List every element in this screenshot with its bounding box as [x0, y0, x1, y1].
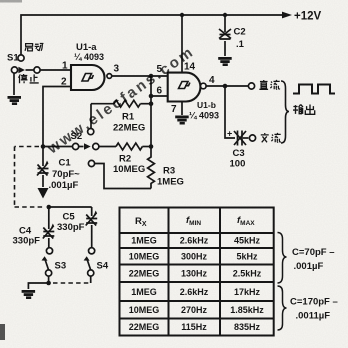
label tingzhi (stop)	[19, 74, 39, 83]
wire U1-b output	[206, 85, 248, 87]
switch S2	[44, 129, 116, 150]
C1 variable arrow	[45, 161, 49, 167]
svg-text:17kHz: 17kHz	[234, 287, 261, 297]
brace output	[281, 81, 289, 143]
capacitor C1 variable	[37, 147, 49, 188]
svg-text:R1: R1	[122, 112, 135, 123]
svg-text:U1-b: U1-b	[197, 100, 216, 110]
brace C group 1	[278, 233, 287, 284]
svg-text:2.6kHz: 2.6kHz	[180, 287, 209, 297]
wire pin14	[181, 15, 183, 73]
wire U1-a output to U1-b pin5	[112, 75, 168, 77]
svg-text:100: 100	[230, 159, 246, 170]
op-amp U1-b (NAND gate 4093)	[168, 73, 201, 102]
wire S3 to ground	[28, 283, 48, 289]
svg-text:330pF: 330pF	[13, 236, 41, 247]
brace C group 2	[278, 286, 287, 330]
switch S4	[87, 248, 94, 283]
table frame	[120, 208, 274, 336]
svg-text:.1: .1	[236, 39, 245, 50]
wire output to C3	[225, 86, 235, 138]
capacitor C4 variable	[43, 207, 55, 248]
svg-text:.0011µF: .0011µF	[296, 311, 331, 322]
svg-text:R2: R2	[119, 154, 131, 165]
svg-text:C2: C2	[234, 27, 246, 38]
switch S2 lower contact	[88, 160, 94, 166]
svg-text:S4: S4	[97, 261, 109, 272]
label zhiliu (DC)	[259, 80, 279, 89]
svg-text:300Hz: 300Hz	[181, 252, 208, 262]
C5 variable arrow	[93, 211, 97, 217]
resistor R1	[91, 100, 151, 128]
node rail-C2	[223, 13, 227, 17]
svg-text:.001µF: .001µF	[294, 261, 324, 272]
node output	[223, 84, 228, 89]
switch S2 wiper arrow	[84, 143, 91, 149]
svg-text:2.5kHz: 2.5kHz	[233, 269, 262, 279]
svg-text:6: 6	[157, 86, 163, 97]
switch S1	[11, 55, 71, 95]
capacitor C3	[234, 131, 248, 146]
edge smudge bottom-left	[0, 324, 5, 340]
wire pin7	[181, 102, 183, 116]
svg-text:1MEG: 1MEG	[131, 287, 157, 297]
capacitor C5 variable	[86, 207, 98, 248]
wire pin6	[151, 95, 168, 97]
resistor R3	[148, 147, 155, 189]
svg-text:330pF: 330pF	[57, 222, 85, 233]
U1-a schmitt symbol	[82, 74, 93, 82]
svg-text:¼ 4093: ¼ 4093	[74, 52, 104, 62]
capacitor C2	[219, 15, 231, 56]
node R2 right	[149, 144, 154, 149]
svg-text:5kHz: 5kHz	[236, 252, 258, 262]
svg-text:835Hz: 835Hz	[234, 322, 261, 332]
node S3 ground	[46, 281, 51, 286]
S4 wiper arrow	[84, 256, 90, 260]
svg-text:70pF~: 70pF~	[52, 169, 80, 180]
node pin3-pin5	[149, 74, 154, 79]
S3 wiper arrow	[42, 256, 48, 260]
wire pin2 feedback	[43, 87, 71, 147]
resistor R2	[116, 143, 151, 150]
node C1 top	[41, 144, 46, 149]
svg-text:3: 3	[114, 64, 120, 75]
svg-text:10MEG: 10MEG	[129, 305, 160, 315]
svg-text:115Hz: 115Hz	[181, 322, 207, 332]
ground S1	[8, 96, 22, 105]
svg-text:+12V: +12V	[294, 11, 322, 23]
op-amp U1-a (NAND gate 4093)	[71, 65, 104, 90]
terminal AC out	[249, 135, 255, 141]
wire dashed gang left	[15, 146, 40, 148]
svg-text:C3: C3	[233, 148, 245, 159]
svg-text:.001µF: .001µF	[49, 180, 79, 191]
svg-text:4: 4	[209, 75, 215, 86]
svg-text:1MEG: 1MEG	[131, 236, 157, 246]
svg-text:2.6kHz: 2.6kHz	[180, 236, 209, 246]
svg-text:22MEG: 22MEG	[129, 322, 160, 332]
svg-text:1: 1	[62, 61, 68, 72]
svg-text:R3: R3	[163, 166, 175, 177]
svg-text:1.85kHz: 1.85kHz	[230, 305, 264, 315]
U1-b output bubble	[201, 83, 207, 89]
table rows	[129, 236, 265, 333]
terminal DC out	[248, 83, 254, 89]
svg-text:+: +	[227, 129, 232, 139]
svg-text:270Hz: 270Hz	[181, 305, 208, 315]
switch S3	[45, 248, 52, 283]
wire dashed S3-S4 gang	[53, 282, 91, 284]
node pin6	[149, 94, 154, 99]
wire dashed gang bottom	[15, 206, 46, 208]
wire +12V top rail	[21, 15, 282, 55]
svg-text:22MEG: 22MEG	[129, 269, 160, 279]
wire node column	[150, 76, 152, 147]
svg-text:10MEG: 10MEG	[113, 164, 145, 175]
node rail-pin14	[180, 13, 184, 17]
wire dashed gang down	[14, 147, 16, 208]
svg-text:¼ 4093: ¼ 4093	[189, 111, 219, 121]
+12V arrow	[282, 12, 292, 19]
ground bottom	[22, 290, 35, 299]
label qidong (start)	[25, 43, 43, 51]
U1-b schmitt symbol	[179, 82, 190, 89]
svg-text:C=170pF –: C=170pF –	[290, 297, 338, 308]
edge smudge top-left	[0, 0, 22, 3]
svg-text:10MEG: 10MEG	[129, 252, 160, 262]
svg-text:C=70pF –: C=70pF –	[292, 247, 335, 258]
node gang bottom	[47, 205, 52, 210]
ground C2	[218, 57, 232, 66]
svg-text:S3: S3	[55, 261, 67, 272]
label shuchu (output)	[293, 105, 315, 115]
U1-a output bubble	[107, 74, 112, 79]
node R1 right	[149, 101, 154, 106]
wire S2 lower to R3 bottom	[95, 164, 151, 189]
switch S1 wiper arrow	[18, 67, 25, 73]
svg-text:130Hz: 130Hz	[181, 269, 208, 279]
wire gang bottom to C5	[49, 206, 92, 208]
svg-text:C5: C5	[63, 212, 76, 223]
square wave	[293, 85, 335, 94]
svg-text:45kHz: 45kHz	[234, 236, 261, 246]
svg-text:1MEG: 1MEG	[157, 177, 184, 188]
svg-text:C1: C1	[59, 158, 72, 169]
C1 bottom arrow	[38, 188, 49, 199]
ground pin7	[175, 116, 189, 125]
svg-text:7: 7	[171, 104, 177, 115]
label jiaoliu (AC)	[261, 133, 281, 142]
C4 variable arrow	[50, 224, 54, 230]
svg-text:22MEG: 22MEG	[113, 123, 145, 134]
